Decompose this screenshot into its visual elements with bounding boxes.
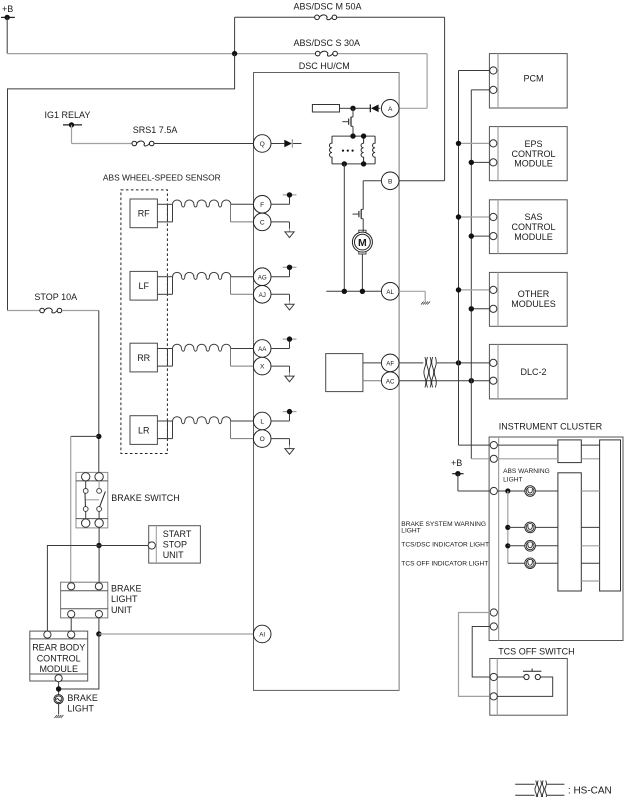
svg-text:ABS WHEEL-SPEED SENSOR: ABS WHEEL-SPEED SENSOR [103,173,221,183]
wire lamp3 to driver box [535,545,558,547]
wire pin AJ to ground [271,294,290,301]
svg-text:TCS/DSC INDICATOR LIGHT: TCS/DSC INDICATOR LIGHT [401,542,489,549]
brake switch leads [86,481,99,519]
pin OTHER-2 [490,305,497,312]
svg-text:+B: +B [2,4,13,14]
svg-text:ABS/DSC S 30A: ABS/DSC S 30A [294,38,361,48]
wire CAN-L bus into cluster [471,458,490,460]
cluster driver box [558,473,581,591]
svg-text:RF: RF [138,209,150,219]
svg-text:A: A [388,106,393,113]
svg-text:SAS: SAS [524,212,542,222]
wire CAN-H to DLC-2 [437,362,490,364]
junction node brake-switch branch [96,434,101,439]
wire pin AG to supply node [271,267,290,276]
wire +B to cluster pin [458,474,490,491]
svg-text:M: M [358,237,367,249]
wire BLU to AI junction [98,618,100,634]
wire cluster to TCS pin1 [472,627,490,678]
pin cluster CAN-H [490,442,497,449]
pin cluster +B [490,487,497,494]
wire to START STOP UNIT [99,545,148,547]
pin PCM-2 [490,86,497,93]
pin EPS-2 [490,159,497,166]
svg-text:STOP: STOP [163,540,187,550]
ground symbol below C [285,229,294,238]
wire to lamp3 [508,545,525,547]
svg-text:LR: LR [138,425,150,435]
sensor LR connector [157,421,172,439]
svg-text:UNIT: UNIT [163,550,184,560]
pin EPS-1 [490,140,497,147]
wire bus to PCM pin 2 [471,89,489,91]
svg-text:CONTROL: CONTROL [511,222,555,232]
wire brake switch down to brake light unit [98,546,100,583]
lamp TCS/DSC indicator light [525,541,536,552]
wire bus to EPS pin 1 [456,141,490,146]
label TCS OFF SWITCH [498,646,575,656]
wire STOP fuse to brake switch [62,311,99,473]
brake switch box [76,472,108,528]
wire pin F to supply node [271,195,290,204]
fuse STOP 10A [40,308,62,313]
svg-text:AC: AC [386,378,395,385]
svg-text:STOP 10A: STOP 10A [34,292,77,302]
ellipsis more coils [342,150,354,152]
solenoid coil bank rails [332,136,375,164]
svg-text:LF: LF [138,281,149,291]
svg-text:START: START [163,529,192,539]
label SRS1 7.5A [133,125,178,135]
pin cluster CAN-L [490,455,497,462]
relay node IG1 RELAY [45,110,91,127]
wire bus to EPS pin 2 [469,160,490,165]
svg-text:CONTROL: CONTROL [37,653,81,663]
junction node start-stop branch [96,543,101,548]
module box PCM [489,54,567,108]
wire driver to MCU row4 [581,562,599,564]
svg-text:L: L [260,419,264,426]
wire lamp2 to driver box [535,526,558,528]
svg-text:MODULE: MODULE [514,232,553,242]
wire bus to SAS pin 2 [469,233,490,238]
rear body pins top [44,631,75,638]
wire riser to M-fuse rail [234,17,236,53]
svg-text:AI: AI [259,632,265,639]
wire S-rail down to pin A [399,54,427,109]
rear body control module box [30,631,88,681]
twisted pair symbol CAN [424,357,436,388]
pin AJ [253,286,271,304]
junction node AI branch [96,631,101,636]
fuse ABS/DSC S 30A [315,51,337,56]
svg-text:EPS: EPS [524,139,542,149]
label BRAKE SYSTEM WARNING LIGHT [401,521,486,535]
wire CAN box to MCU 2 [581,458,599,460]
pin AC [381,372,399,390]
transistor Q2 (pump motor FET) [353,209,364,232]
pin C [253,213,271,231]
junction node lamp2 [505,525,510,530]
label ABS WHEEL-SPEED SENSOR [103,173,221,183]
label HS-CAN [568,786,612,797]
CAN-H bus vertical [458,71,460,446]
cluster MCU box [600,440,621,591]
diode D1 to pin A [356,104,381,112]
wire driver to MCU row3 [581,545,599,547]
svg-text:MODULES: MODULES [511,299,556,309]
wire BLU to rear body pin2 [70,618,72,631]
wire IG1 to fuse [72,125,132,144]
wire to rear body module pin1 [47,546,99,632]
junction nodes coil bank top [350,133,366,138]
lamp brake system warning light [525,522,536,533]
svg-text:TCS OFF INDICATOR LIGHT: TCS OFF INDICATOR LIGHT [401,561,488,568]
svg-text:MODULE: MODULE [514,159,553,169]
wire fuse to pin Q [154,143,253,145]
power node +B cluster [451,458,464,477]
wire bus to OTHER pin 2 [469,306,490,311]
wire S-fuse rail right segment [338,53,428,55]
label REAR BODY CONTROL MODULE [32,643,85,674]
svg-text:OTHER: OTHER [518,289,550,299]
svg-text:BRAKE: BRAKE [111,584,142,594]
pin A [381,100,399,118]
sensor RF box [130,199,157,228]
pin AA [253,340,271,358]
supply tick node above AA [283,336,297,341]
wire resistor to node [340,107,354,109]
wire to lamp2 [508,526,525,528]
wire junction down to brake light [59,634,99,689]
pin O [253,430,271,448]
sensor RR box [130,343,157,372]
svg-text:REAR BODY: REAR BODY [32,643,85,653]
wire pin AA to supply node [271,339,290,348]
junction node at resistor/diode [350,106,355,111]
svg-text:AG: AG [258,274,267,281]
brake light unit pins [68,583,103,618]
wire CAN-H bus into cluster [459,444,491,446]
svg-text:DLC-2: DLC-2 [520,367,546,377]
pin AL [381,283,399,301]
fuse SRS1 7.5A [132,141,154,146]
twisted pair coil LF [173,272,231,279]
wire bus to PCM pin 1 [459,70,490,72]
pin SAS-2 [490,233,497,240]
ABS wheel-speed sensor assembly dashed box [121,190,167,454]
wire CAN box to pin AC [363,380,382,382]
wire lamp1 to driver box [535,490,558,492]
wire CAN box to MCU [581,444,599,446]
svg-text:IG1 RELAY: IG1 RELAY [45,110,91,120]
wire junction to pin AI [99,633,254,635]
pin F [253,196,271,214]
wire pin O to ground [271,439,290,446]
pin SAS-1 [490,213,497,220]
label ABS/DSC M 50A [294,2,362,12]
pin TCS-1 [490,673,497,680]
pin L [253,412,271,430]
brake light unit box [61,582,108,618]
label INSTRUMENT CLUSTER [499,422,603,432]
pin B [381,172,399,190]
DSC HU/CM module box [254,73,400,691]
chassis ground at brake light [54,715,63,718]
wire pin L to supply node [271,412,290,421]
lamp ABS warning light [525,486,536,497]
svg-text:AL: AL [386,289,394,296]
lamp BRAKE LIGHT [54,695,63,704]
svg-text:AA: AA [258,346,267,353]
fuse ABS/DSC M 50A [315,15,337,20]
module box DLC-2 [489,344,567,399]
wire rear body to brake light [58,682,60,695]
wire to lamp4 [508,562,525,564]
wire coil to pin AG [231,276,254,278]
TCS OFF switch box [490,659,568,716]
label ABS/DSC S 30A [294,38,361,48]
svg-text:BRAKE SWITCH: BRAKE SWITCH [111,493,180,503]
svg-text:B: B [388,178,393,185]
junction nodes coil bank bottom [342,161,367,166]
brake switch terminals [82,473,104,528]
svg-text:C: C [260,220,265,227]
junction node CAN-H at DLC-2 [456,360,461,365]
label TCS/DSC INDICATOR LIGHT [401,542,489,549]
svg-text:LIGHT: LIGHT [503,476,522,483]
legend twisted pair symbol [515,781,564,797]
label ABS WARNING LIGHT [503,468,550,483]
svg-text:MODULE: MODULE [39,664,78,674]
junction node brake light [56,686,61,691]
svg-text:TCS OFF SWITCH: TCS OFF SWITCH [498,646,575,656]
wire branch to rear body module [71,436,99,582]
transistor Q1 (valve driver FET) [342,108,353,136]
junction node at M/S rail split [232,51,237,56]
wire cluster pin2 to CAN box [497,458,558,460]
module box SAS CONTROL MODULE [489,200,567,254]
pin X [253,357,271,375]
switch TCS OFF (momentary) [523,669,542,680]
wire cluster to TCS pin2 [459,613,491,697]
wire coil to pin L [231,420,254,422]
rear body pin bottom [55,675,62,682]
sensor RF connector [157,204,172,222]
svg-text:INSTRUMENT CLUSTER: INSTRUMENT CLUSTER [499,422,603,432]
svg-text:LIGHT: LIGHT [111,594,138,604]
ground symbol below O [285,445,294,454]
wire driver to MCU row5 [581,580,599,582]
wire pin X to ground [271,366,290,373]
svg-text:ABS WARNING: ABS WARNING [503,468,550,475]
junction node lamp rail top [505,488,510,493]
svg-text:LIGHT: LIGHT [67,704,94,714]
wire M-rail down to pin B [399,17,445,181]
wire coil to pin X [231,349,254,367]
svg-text:PCM: PCM [524,74,544,84]
svg-text:: HS-CAN: : HS-CAN [568,786,612,797]
wire to STOP fuse [8,310,40,312]
wire driver to MCU row1 [581,490,599,492]
sensor RR connector [157,349,172,367]
motor M (pump) [352,230,372,254]
wire +B pin to lamp rail [497,490,524,492]
svg-text:RR: RR [137,353,150,363]
instrument cluster box [489,437,623,641]
wire CAN-L to DLC-2 [437,380,490,382]
label DSC HU/CM [299,61,350,71]
label STOP 10A [34,292,77,302]
wire coil to pin F [231,203,254,205]
chassis ground at AL [421,302,430,305]
supply tick node above AG [283,265,297,270]
lamp TCS OFF indicator light [525,558,536,569]
sensor LF connector [157,277,172,295]
wire brake light to ground [58,704,60,715]
junction node lamp3 [505,543,510,548]
pin cluster TCS-1 [490,609,497,616]
pin DLC-1 [490,359,497,366]
lamp rail vertical [507,491,509,563]
pin cluster TCS-2 [490,623,497,630]
wire switch to TCS pin2 [497,677,552,696]
svg-text:SRS1 7.5A: SRS1 7.5A [133,125,178,135]
CAN controller box [326,354,363,392]
wire bus to OTHER pin 1 [456,287,490,292]
wire coil to pin O [231,421,254,439]
wire CAN-L pin AC to bus [399,380,437,382]
label TCS OFF INDICATOR LIGHT [401,561,488,568]
svg-text:CONTROL: CONTROL [511,149,555,159]
label BRAKE SWITCH [111,493,180,503]
solenoid coil middle [361,136,364,164]
solenoid coil right [373,136,376,164]
brake switch blades [85,491,105,506]
svg-text:AF: AF [386,361,394,368]
pin AF [381,354,399,372]
wire bus to SAS pin 1 [456,214,490,219]
wire coil to pin AA [231,348,254,350]
sensor LR box [130,416,157,445]
wire lamp4 to driver box [535,562,558,564]
wire pin AL to chassis ground [399,291,425,301]
wire +B down to S-fuse rail [6,17,8,53]
svg-text:+B: +B [451,458,462,468]
pin AG [253,268,271,286]
pin AI [253,625,271,643]
CAN-L bus vertical [470,90,472,459]
svg-text:Q: Q [260,141,265,148]
wire coil to pin C [231,204,254,222]
diode arrow after Q [271,139,302,147]
wire coil to pin AJ [231,277,254,295]
junction nodes on AL rail [342,289,366,294]
wire pin B to motor FET [363,181,381,210]
svg-text:F: F [260,202,264,209]
wire coil bank to AL rail [343,164,345,291]
ground symbol below X [285,373,294,382]
twisted pair coil RR [173,344,231,351]
START STOP UNIT box [149,526,201,563]
junction node CAN-L at DLC-2 [469,378,474,383]
wire main feed down-left jog [8,54,235,311]
wire driver to MCU row2 [581,526,599,528]
module box OTHER MODULES [489,272,567,326]
svg-text:ABS/DSC M 50A: ABS/DSC M 50A [294,2,362,12]
sensor LF box [130,271,157,300]
wire CAN box to pin AF [363,362,382,364]
wire M-fuse rail [235,16,445,18]
pin start-stop [148,542,155,549]
svg-text:LIGHT: LIGHT [401,528,420,535]
AL rail wire [326,290,381,292]
svg-text:O: O [260,436,265,443]
resistor (solenoid driver) [312,105,339,113]
supply tick node above L [283,409,297,414]
power node +B top-left [1,4,15,20]
label BRAKE LIGHT UNIT [111,584,142,615]
supply tick node above F [283,192,297,197]
twisted pair coil RF [173,200,231,207]
twisted pair coil LR [173,417,231,424]
pin Q [253,135,271,153]
pin PCM-1 [490,67,497,74]
svg-text:DSC HU/CM: DSC HU/CM [299,61,350,71]
wire CAN-H pin AF to bus [399,362,423,364]
wire S-fuse rail left segment [7,53,315,55]
svg-text:X: X [260,364,265,371]
solenoid coil left [329,136,332,164]
wire cluster pin1 to CAN box [497,444,558,446]
wire motor to AL rail [361,254,363,291]
ground symbol below AJ [285,301,294,310]
pin TCS-2 [490,693,497,700]
wire pin C to ground [271,222,290,229]
svg-text:BRAKE: BRAKE [67,693,98,703]
module box EPS CONTROL MODULE [489,127,567,181]
pin DLC-2 [490,377,497,384]
pin OTHER-1 [490,286,497,293]
wire TCS pin1 to switch [497,676,524,678]
wire brake switch to junction [98,527,100,545]
label START STOP UNIT [163,529,192,560]
svg-text:AJ: AJ [259,292,266,299]
brake switch contacts [83,489,101,512]
label BRAKE LIGHT [67,693,98,714]
svg-text:UNIT: UNIT [111,605,132,615]
cluster CAN interface box [558,440,581,463]
